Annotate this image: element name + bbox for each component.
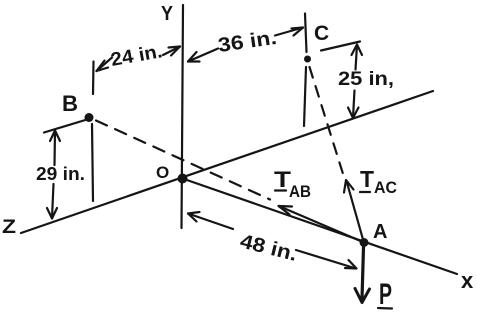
dimension 36in right arrow xyxy=(275,28,303,36)
svg-text:O: O xyxy=(156,163,169,182)
dimension 29in line lower segment xyxy=(52,184,54,218)
node B dot xyxy=(85,113,94,122)
svg-text:AB: AB xyxy=(289,183,311,201)
svg-text:AC: AC xyxy=(374,179,397,197)
force TAC arrow xyxy=(347,181,365,243)
dimension 25in top arrowhead xyxy=(352,45,363,56)
dimension 24in tick above B xyxy=(92,62,95,95)
wire vertical below C xyxy=(304,67,306,126)
svg-text:Y: Y xyxy=(161,2,173,25)
z axis line through O xyxy=(21,91,433,233)
wire vertical below B xyxy=(92,124,93,201)
svg-text:25 in,: 25 in, xyxy=(338,69,394,90)
dimension 25in bottom arrowhead xyxy=(348,108,359,119)
svg-text:C: C xyxy=(314,22,329,45)
dimension 25in line lower segment xyxy=(353,91,355,118)
x axis xyxy=(184,179,457,274)
force TAB arrow xyxy=(280,207,364,243)
wire vertical above C xyxy=(305,14,307,53)
node A dot xyxy=(360,238,369,247)
svg-text:29 in.: 29 in. xyxy=(36,163,85,184)
dashed cable C to A xyxy=(310,67,345,177)
svg-text:B: B xyxy=(62,91,78,116)
dimension 24in right arrow xyxy=(163,47,180,56)
dimension 48in right arrowhead xyxy=(345,260,357,269)
dimension 48in right segment xyxy=(296,250,356,269)
svg-text:A: A xyxy=(373,221,387,243)
dimension 48in left segment xyxy=(188,214,233,230)
Y axis xyxy=(182,5,184,228)
dimension 36in label xyxy=(217,27,278,57)
dimension 36in left arrow xyxy=(188,49,218,62)
dimension 24in label xyxy=(109,41,164,71)
svg-text:Z: Z xyxy=(2,217,16,238)
dimension 29in bottom arrowhead xyxy=(47,208,57,219)
wire leader from C up-right xyxy=(321,42,360,51)
dimension 24in left arrow xyxy=(97,58,113,72)
dimension 29in line upper segment xyxy=(53,131,56,165)
dashed cable B to A xyxy=(96,121,270,200)
wire leader from B down-left xyxy=(44,120,87,133)
svg-text:x: x xyxy=(461,268,474,293)
dimension 25in line upper segment xyxy=(356,45,358,70)
dimension 29in top arrowhead xyxy=(50,131,60,142)
node O dot xyxy=(178,174,188,184)
svg-text:T: T xyxy=(360,166,374,192)
dimension 48in left arrowhead xyxy=(188,212,200,222)
force P arrow xyxy=(362,247,364,299)
dimension 48in label xyxy=(238,231,300,266)
node C dot xyxy=(304,56,311,63)
svg-text:P: P xyxy=(379,278,392,311)
